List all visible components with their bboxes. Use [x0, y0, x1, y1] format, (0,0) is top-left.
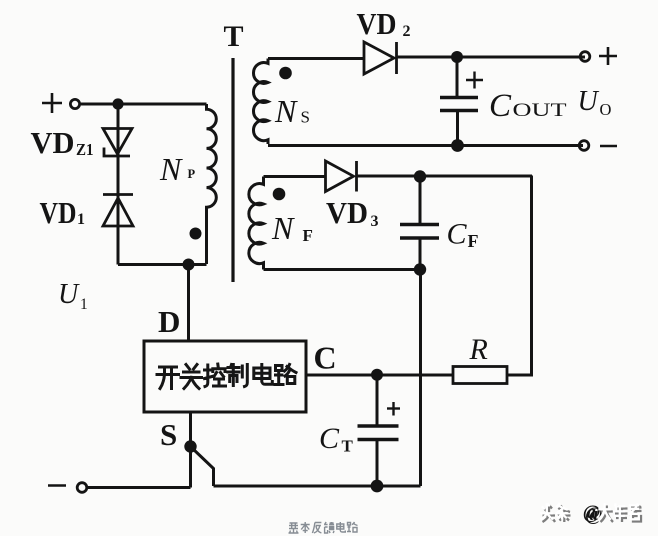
- char 年: [615, 506, 628, 523]
- phase dot Np: [190, 228, 202, 240]
- svg-text:VD: VD: [31, 125, 75, 160]
- output - terminal: [579, 141, 617, 151]
- svg-text:Z1: Z1: [76, 140, 94, 159]
- svg-text:1: 1: [77, 211, 85, 228]
- char 大: [601, 506, 614, 523]
- junction dot Cout bottom: [451, 139, 464, 152]
- capacitor CF: [400, 177, 439, 269]
- diode VD2: [364, 42, 397, 74]
- svg-text:P: P: [188, 167, 196, 181]
- wire: left clamp branch: [117, 104, 120, 265]
- svg-text:C: C: [447, 218, 468, 251]
- diode VD1: [103, 195, 133, 227]
- transformer core: [231, 58, 234, 282]
- junction dot CF bottom: [414, 263, 426, 275]
- char 关: [181, 365, 202, 389]
- diode VD3: [326, 161, 357, 192]
- svg-text:U: U: [58, 279, 80, 310]
- svg-text:C: C: [319, 422, 340, 455]
- primary winding Np: [207, 104, 217, 264]
- output + terminal: [580, 47, 617, 65]
- junction dot S node: [184, 440, 196, 452]
- svg-text:N: N: [271, 210, 295, 246]
- resistor R: [453, 367, 507, 384]
- junction dot CT bottom: [371, 480, 384, 493]
- char 条: [558, 506, 571, 523]
- char 路: [347, 522, 358, 532]
- char 路: [275, 365, 296, 385]
- svg-text:T: T: [223, 20, 243, 53]
- svg-text:N: N: [159, 151, 183, 187]
- wire: right vertical feedback: [530, 176, 533, 377]
- svg-text:F: F: [468, 231, 479, 251]
- wire: CF bottom down to bottom rail: [419, 270, 422, 487]
- junction dot input node: [112, 98, 123, 109]
- svg-text:2: 2: [403, 23, 411, 40]
- wire: switch stroke to bottom rail: [192, 448, 214, 486]
- svg-text:U: U: [578, 86, 600, 117]
- wire: clamp bottom to primary bottom: [118, 263, 207, 266]
- svg-text:C: C: [489, 88, 512, 124]
- svg-text:VD: VD: [357, 6, 397, 41]
- char 电: [337, 522, 346, 532]
- wire: VD3 to right corner: [356, 175, 532, 178]
- wire: S source wire: [189, 412, 192, 488]
- control box text 开关控制电路: [157, 364, 296, 389]
- char @: [585, 504, 603, 525]
- svg-text:D: D: [158, 304, 180, 339]
- caption 基本反馈电路: [289, 522, 358, 533]
- svg-text:@: @: [583, 502, 601, 523]
- wire: - terminal to S: [87, 486, 191, 489]
- wire: Ns bottom rail: [268, 144, 583, 147]
- junction dot Cout top: [451, 51, 463, 63]
- wire: Nf top to VD3: [264, 175, 326, 178]
- wire: Nf bottom: [264, 268, 421, 271]
- svg-text:O: O: [600, 100, 612, 119]
- node: - input terminal: [48, 483, 87, 493]
- svg-text:VD: VD: [326, 195, 368, 230]
- watermark 头条@大年君 shadow layer: [543, 504, 642, 525]
- svg-text:1: 1: [80, 296, 88, 313]
- wire: R to right vertical: [507, 374, 533, 377]
- svg-text:R: R: [469, 333, 488, 366]
- svg-text:F: F: [303, 226, 313, 245]
- junction dot primary bottom node: [183, 259, 195, 271]
- svg-text:VD: VD: [40, 195, 77, 230]
- wire: Ns top to VD2: [268, 57, 364, 60]
- secondary winding Ns: [253, 59, 268, 145]
- junction dot CT top: [371, 369, 383, 381]
- char 开: [157, 367, 179, 389]
- wire: VD2 to output +: [397, 56, 586, 59]
- char 馈: [324, 522, 334, 533]
- phase dot Ns: [279, 67, 292, 80]
- char 反: [312, 523, 321, 534]
- svg-text:C: C: [314, 340, 337, 376]
- char 本: [301, 522, 310, 533]
- char 基: [289, 523, 299, 533]
- phase dot Nf: [273, 188, 286, 201]
- char 控: [205, 364, 226, 387]
- svg-text:OUT: OUT: [513, 101, 567, 121]
- control box: [144, 341, 306, 412]
- char 君: [630, 506, 642, 522]
- svg-text:S: S: [301, 108, 310, 127]
- char 电: [254, 365, 272, 385]
- wire: bottom rail: [214, 485, 421, 488]
- svg-text:T: T: [342, 437, 354, 456]
- svg-text:3: 3: [371, 213, 379, 230]
- wire: C pin to R: [306, 374, 453, 377]
- svg-text:S: S: [160, 417, 177, 452]
- char 制: [228, 365, 247, 387]
- wire: + terminal to primary top: [80, 103, 207, 106]
- svg-text:N: N: [274, 93, 298, 129]
- capacitor Cout: [440, 57, 483, 146]
- junction dot CF top: [414, 170, 426, 182]
- node: + input terminal: [42, 93, 80, 113]
- watermark highlight layer: [540, 502, 639, 523]
- zener diode VDZ1: [103, 129, 132, 157]
- feedback winding Nf: [249, 177, 264, 270]
- capacitor CT: [358, 375, 401, 486]
- char 头: [543, 506, 556, 523]
- wire: D drain wire: [187, 265, 190, 342]
